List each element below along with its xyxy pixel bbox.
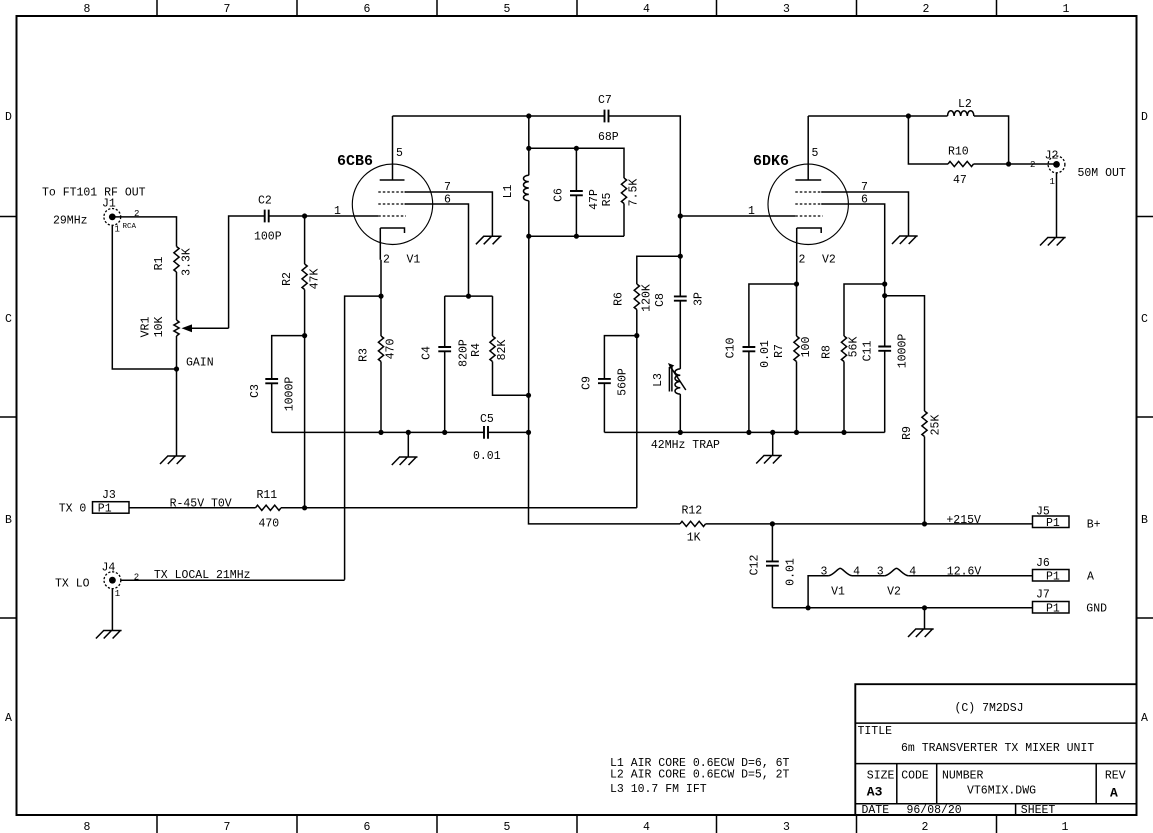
svg-text:96/08/20: 96/08/20 xyxy=(907,804,962,817)
wire GND line to J7 xyxy=(772,607,1032,609)
node To FT101 RF OUT label xyxy=(42,187,146,228)
svg-text:1: 1 xyxy=(115,225,120,235)
svg-text:V2: V2 xyxy=(887,586,901,599)
svg-text:0.01: 0.01 xyxy=(785,558,798,586)
node plate/L2/R10 xyxy=(906,113,911,118)
svg-text:120K: 120K xyxy=(641,284,654,312)
node C5/B+ xyxy=(526,430,531,435)
svg-text:5: 5 xyxy=(396,147,403,160)
svg-text:V1: V1 xyxy=(831,586,845,599)
node V2 screen xyxy=(882,281,887,286)
node GND gnd stub xyxy=(922,605,927,610)
wire cathode node to TX LO riser xyxy=(345,296,381,580)
svg-text:A: A xyxy=(5,712,12,725)
svg-text:To FT101 RF OUT: To FT101 RF OUT xyxy=(42,187,146,200)
svg-text:2: 2 xyxy=(922,821,929,833)
svg-text:3: 3 xyxy=(783,821,790,833)
wire J4 pin2 TX LOCAL 21MHz xyxy=(121,569,345,582)
ground (right rail) xyxy=(756,456,782,464)
svg-text:0.01: 0.01 xyxy=(473,450,501,463)
svg-text:6: 6 xyxy=(364,821,371,833)
svg-text:R-45V T0V: R-45V T0V xyxy=(170,497,232,510)
node R9 bottom xyxy=(922,521,927,526)
wire J1 pin1 down and to GAIN node xyxy=(112,225,176,369)
wire R11 to R6 bottom xyxy=(281,507,637,509)
node R7/rail xyxy=(794,430,799,435)
wire V2 plate rail xyxy=(808,115,947,117)
resistor R8 56K xyxy=(821,336,861,432)
svg-text:C11: C11 xyxy=(862,341,875,362)
svg-text:J2: J2 xyxy=(1045,150,1059,163)
svg-text:3: 3 xyxy=(821,566,828,579)
wire GAIN to ground xyxy=(176,369,178,456)
ground (input) xyxy=(160,456,186,464)
svg-text:6DK6: 6DK6 xyxy=(753,153,789,170)
node V1 cathode xyxy=(378,294,383,299)
node gnd stub xyxy=(406,430,411,435)
node R3/rail xyxy=(378,430,383,435)
svg-text:8: 8 xyxy=(84,821,91,833)
svg-text:1000P: 1000P xyxy=(897,334,910,369)
svg-text:(C) 7M2DSJ: (C) 7M2DSJ xyxy=(954,702,1023,715)
svg-text:A: A xyxy=(1110,786,1118,801)
svg-text:6: 6 xyxy=(364,3,371,16)
ground (V2 pin7) xyxy=(892,236,918,244)
inductor L2 xyxy=(948,98,1009,164)
capacitor C4 820P xyxy=(421,296,471,432)
potentiometer VR1 10K xyxy=(140,317,229,338)
node V2 grid tap xyxy=(678,213,683,218)
svg-text:47K: 47K xyxy=(309,269,322,290)
capacitor C9 560P xyxy=(581,336,637,433)
connector J4 (TX LO) xyxy=(55,562,139,599)
svg-text:5: 5 xyxy=(504,3,511,16)
connector J2 (50M OUT) xyxy=(1030,150,1126,188)
svg-text:C4: C4 xyxy=(421,346,434,360)
svg-text:C2: C2 xyxy=(258,195,272,208)
svg-text:B: B xyxy=(5,514,12,527)
resistor R9 25K xyxy=(885,296,943,524)
resistor R12 1K xyxy=(680,505,705,545)
svg-text:2: 2 xyxy=(134,573,139,583)
node right rail gnd stub xyxy=(770,430,775,435)
wire V1 pin6 down to screen node xyxy=(405,194,469,297)
svg-text:L2: L2 xyxy=(958,98,972,111)
node V2 cathode xyxy=(794,281,799,286)
svg-text:1000P: 1000P xyxy=(284,377,297,412)
svg-text:L3: L3 xyxy=(652,373,665,387)
svg-text:J3: J3 xyxy=(102,489,116,502)
node R4/B+ xyxy=(526,393,531,398)
ground (J4) xyxy=(96,631,122,639)
node V1 screen xyxy=(466,294,471,299)
svg-text:2: 2 xyxy=(799,254,806,267)
svg-text:A: A xyxy=(1141,712,1148,725)
svg-text:C6: C6 xyxy=(553,188,566,202)
connector J7 (GND) xyxy=(1033,589,1108,616)
svg-text:L1: L1 xyxy=(502,185,515,199)
wire screen rail to R8 xyxy=(844,284,885,336)
svg-text:10K: 10K xyxy=(153,317,166,338)
ground (cathode rail) xyxy=(392,457,418,465)
svg-text:RCA: RCA xyxy=(123,223,137,231)
svg-text:68P: 68P xyxy=(598,131,619,144)
wire V2 pin7 to ground xyxy=(821,181,908,236)
svg-text:6CB6: 6CB6 xyxy=(337,153,373,170)
svg-text:C12: C12 xyxy=(749,555,762,576)
wire to V2 pin1 xyxy=(680,205,795,218)
svg-text:100: 100 xyxy=(800,337,813,358)
node R11 junction xyxy=(302,505,307,510)
node C6 bottom xyxy=(574,234,579,239)
svg-text:J6: J6 xyxy=(1036,557,1050,570)
tube V1 6CB6 xyxy=(337,116,433,267)
svg-text:R12: R12 xyxy=(682,505,703,518)
svg-text:R8: R8 xyxy=(821,345,834,359)
svg-text:100P: 100P xyxy=(254,231,282,244)
svg-text:4: 4 xyxy=(643,3,650,16)
svg-text:R6: R6 xyxy=(613,292,626,306)
svg-text:A: A xyxy=(1087,571,1094,584)
svg-text:B: B xyxy=(1141,514,1148,527)
svg-text:C8: C8 xyxy=(654,293,667,307)
node L2/R10/J2 xyxy=(1006,161,1011,166)
node R6/C8 xyxy=(678,254,683,259)
svg-text:C3: C3 xyxy=(249,384,262,398)
wire grid node to V1 pin 1 xyxy=(305,205,379,218)
node heater/GND xyxy=(806,605,811,610)
resistor R5 7.5K xyxy=(601,178,641,236)
svg-text:3.3K: 3.3K xyxy=(181,248,194,276)
svg-text:V1: V1 xyxy=(407,254,421,267)
svg-text:VR1: VR1 xyxy=(140,317,153,338)
node C12 top xyxy=(770,521,775,526)
svg-text:1: 1 xyxy=(1063,3,1070,16)
wire R2 bottom down to R11 junction xyxy=(304,336,306,508)
ground (J2) xyxy=(1040,238,1066,246)
svg-text:P1: P1 xyxy=(1046,517,1060,530)
svg-text:C10: C10 xyxy=(725,338,738,359)
wire V1 pin7 to ground xyxy=(405,181,493,236)
svg-text:VT6MIX.DWG: VT6MIX.DWG xyxy=(967,785,1036,798)
svg-text:1: 1 xyxy=(334,205,341,218)
svg-text:P1: P1 xyxy=(1046,571,1060,584)
ground (V1 pin7) xyxy=(476,236,502,244)
resistor R2 47K xyxy=(281,216,322,336)
svg-text:1: 1 xyxy=(748,205,755,218)
svg-text:2: 2 xyxy=(923,3,930,16)
svg-text:3: 3 xyxy=(783,3,790,16)
svg-text:3P: 3P xyxy=(693,292,706,306)
svg-text:2: 2 xyxy=(383,254,390,267)
svg-text:5: 5 xyxy=(504,821,511,833)
svg-text:5: 5 xyxy=(812,147,819,160)
connector J1 (RCA) xyxy=(102,197,139,234)
wire tank top rail xyxy=(529,148,624,178)
capacitor C10 0.01 xyxy=(725,338,773,433)
resistor R6 120K xyxy=(613,256,681,508)
svg-text:TX LOCAL 21MHz: TX LOCAL 21MHz xyxy=(154,569,251,582)
svg-text:7: 7 xyxy=(224,821,231,833)
wire C7 to V2 grid corner xyxy=(609,116,681,256)
resistor R11 470 xyxy=(256,489,281,531)
svg-text:2: 2 xyxy=(1030,160,1035,170)
svg-text:C5: C5 xyxy=(480,413,494,426)
svg-text:7.5K: 7.5K xyxy=(628,179,641,207)
svg-text:25K: 25K xyxy=(930,415,943,436)
svg-text:P1: P1 xyxy=(1046,603,1060,616)
wire J2 pin1 to ground xyxy=(1056,173,1058,238)
svg-text:R2: R2 xyxy=(281,272,294,286)
wire R1 to VR1 xyxy=(176,272,178,320)
heater V2 filament xyxy=(852,566,916,599)
svg-text:NUMBER: NUMBER xyxy=(942,770,984,783)
svg-text:6m TRANSVERTER TX MIXER UNIT: 6m TRANSVERTER TX MIXER UNIT xyxy=(901,742,1094,755)
svg-text:50M OUT: 50M OUT xyxy=(1078,167,1126,180)
svg-text:0.01: 0.01 xyxy=(759,340,772,368)
svg-text:B+: B+ xyxy=(1087,519,1101,532)
capacitor C2 100P xyxy=(254,195,282,244)
svg-text:1: 1 xyxy=(1062,821,1069,833)
node GAIN xyxy=(174,357,214,372)
svg-text:D: D xyxy=(5,111,12,124)
svg-text:R1: R1 xyxy=(153,257,166,271)
svg-text:12.6V: 12.6V xyxy=(947,565,982,578)
svg-text:CODE: CODE xyxy=(901,770,929,783)
resistor R7 100 xyxy=(773,284,813,432)
node R8/rail xyxy=(841,430,846,435)
capacitor C6 47P xyxy=(553,148,602,236)
svg-text:6: 6 xyxy=(861,194,868,207)
wire V1 plate rail xyxy=(393,115,605,117)
svg-text:7: 7 xyxy=(444,181,451,194)
wire C5 to B+ xyxy=(488,431,529,433)
svg-text:J1: J1 xyxy=(102,197,116,210)
svg-text:D: D xyxy=(1141,111,1148,124)
wire VR1 wiper riser to C2 xyxy=(229,216,265,328)
svg-text:TX LO: TX LO xyxy=(55,578,90,591)
svg-text:P1: P1 xyxy=(98,503,112,516)
wire B+ vertical xyxy=(529,236,681,524)
svg-text:470: 470 xyxy=(259,518,280,531)
svg-text:1K: 1K xyxy=(687,532,701,545)
svg-text:C: C xyxy=(5,313,12,326)
wire left ground rail xyxy=(272,431,484,433)
svg-text:L2 AIR CORE 0.6ECW D=5, 2T: L2 AIR CORE 0.6ECW D=5, 2T xyxy=(610,769,790,782)
svg-text:TX 0: TX 0 xyxy=(59,503,87,516)
svg-text:1: 1 xyxy=(115,589,120,599)
wire trap ground rail xyxy=(604,431,884,433)
capacitor C11 1000P xyxy=(862,284,910,432)
node C4/rail xyxy=(442,430,447,435)
svg-text:C: C xyxy=(1141,313,1148,326)
svg-text:R7: R7 xyxy=(773,344,786,358)
svg-text:V2: V2 xyxy=(822,254,836,267)
svg-text:DATE: DATE xyxy=(862,804,890,817)
resistor R3 470 xyxy=(358,296,398,432)
svg-text:8: 8 xyxy=(84,3,91,16)
node C10/rail xyxy=(746,430,751,435)
ground (GND line) xyxy=(908,629,934,637)
wire VR1 bottom to GAIN node xyxy=(176,336,178,369)
svg-text:4: 4 xyxy=(643,821,650,833)
svg-text:3: 3 xyxy=(877,566,884,579)
svg-text:R11: R11 xyxy=(257,489,278,502)
svg-text:SHEET: SHEET xyxy=(1021,804,1056,817)
tube V2 6DK6 xyxy=(753,116,848,284)
inductor L3 10.7 FM IFT xyxy=(652,301,686,433)
svg-text:820P: 820P xyxy=(458,339,471,367)
node tank bottom xyxy=(526,234,531,239)
svg-text:47: 47 xyxy=(953,174,967,187)
capacitor C8 3P xyxy=(654,256,706,307)
title block xyxy=(855,684,1136,817)
svg-text:47P: 47P xyxy=(588,189,601,210)
svg-text:R3: R3 xyxy=(358,348,371,362)
capacitor C5 0.01 xyxy=(473,413,501,463)
svg-text:R9: R9 xyxy=(901,426,914,440)
svg-text:7: 7 xyxy=(861,181,868,194)
node L3/rail xyxy=(678,430,683,435)
svg-text:470: 470 xyxy=(385,339,398,360)
svg-text:SIZE: SIZE xyxy=(867,770,895,783)
wire screen rail xyxy=(445,295,493,297)
connector J6 (A) xyxy=(1033,557,1095,584)
node C6 top xyxy=(574,146,579,151)
heater V1 filament xyxy=(808,566,860,608)
svg-text:82K: 82K xyxy=(496,340,509,361)
node R9 tap xyxy=(882,293,887,298)
svg-text:R4: R4 xyxy=(470,343,483,357)
node tank top xyxy=(526,146,531,151)
wire V2 pin6 down to screen node xyxy=(821,194,885,285)
wire J1 pin2 to R1 top xyxy=(112,217,176,247)
wire C2 to grid node xyxy=(269,215,305,217)
svg-text:56K: 56K xyxy=(848,337,861,358)
wire tank bottom rail xyxy=(529,235,624,237)
capacitor C7 68P xyxy=(598,94,619,144)
svg-text:29MHz: 29MHz xyxy=(53,215,88,228)
svg-text:7: 7 xyxy=(224,3,231,16)
svg-text:C9: C9 xyxy=(581,376,594,390)
resistor R4 82K xyxy=(470,296,529,395)
wire J4 pin1 to ground xyxy=(111,588,113,630)
wire rail ground stub xyxy=(407,432,409,457)
svg-text:GND: GND xyxy=(1086,603,1107,616)
connector J5 (B+) xyxy=(1033,506,1101,532)
resistor R10 47 xyxy=(908,116,1056,187)
node C9 tap xyxy=(634,333,639,338)
svg-text:R5: R5 xyxy=(601,193,614,207)
capacitor C12 0.01 xyxy=(749,524,798,608)
connector J3 (TX 0) xyxy=(59,489,129,516)
note coil winding data xyxy=(610,757,790,796)
inductor L1 xyxy=(502,148,529,236)
svg-text:6: 6 xyxy=(444,194,451,207)
svg-text:A3: A3 xyxy=(867,785,883,800)
capacitor C3 1000P xyxy=(249,336,305,433)
svg-text:+215V: +215V xyxy=(946,514,981,527)
wire cathode rail to C10 xyxy=(749,284,797,347)
resistor R1 3.3K xyxy=(153,247,194,276)
node V1 grid xyxy=(302,213,307,218)
svg-text:C7: C7 xyxy=(598,94,612,107)
svg-text:TITLE: TITLE xyxy=(858,725,893,738)
wire V1 cathode down xyxy=(380,260,382,296)
svg-text:560P: 560P xyxy=(617,368,630,396)
wire L1 feed xyxy=(528,116,530,148)
svg-text:42MHz TRAP: 42MHz TRAP xyxy=(651,439,720,452)
svg-text:REV: REV xyxy=(1105,770,1126,783)
svg-text:L3 10.7 FM IFT: L3 10.7 FM IFT xyxy=(610,783,707,796)
svg-text:GAIN: GAIN xyxy=(186,357,214,370)
node R2/C3 xyxy=(302,333,307,338)
wire heater to J6 xyxy=(908,565,1032,578)
svg-text:J7: J7 xyxy=(1036,589,1050,602)
node plate rail / L1 xyxy=(526,113,531,118)
wire J3 to R11 xyxy=(129,497,256,510)
wire R12 to J5 xyxy=(706,523,1033,525)
svg-text:1: 1 xyxy=(1050,177,1055,187)
svg-text:R10: R10 xyxy=(948,146,969,159)
